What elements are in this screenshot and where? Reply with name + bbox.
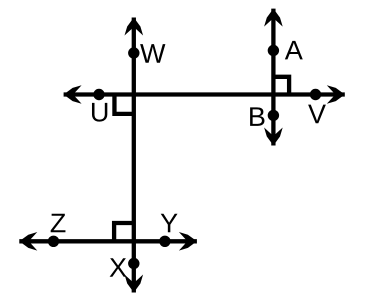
node W dot xyxy=(128,47,139,58)
label B xyxy=(250,107,264,126)
node Y dot xyxy=(159,236,170,247)
label Z xyxy=(51,214,66,233)
arrowhead WX bottom xyxy=(125,275,144,293)
arrowhead ZY left xyxy=(19,232,37,251)
arrowhead ZY right xyxy=(179,232,197,251)
node B dot xyxy=(268,110,279,121)
label W xyxy=(140,44,165,63)
arrowhead UV right xyxy=(327,85,345,104)
arrowhead AB top xyxy=(264,9,283,27)
wire: horizontal line UV xyxy=(64,92,345,96)
right-angle mark at AB intersection xyxy=(273,77,289,95)
node X dot xyxy=(128,258,139,269)
arrowhead UV left xyxy=(64,85,82,104)
wire: vertical line WX xyxy=(132,18,136,293)
wire: horizontal line ZY xyxy=(19,239,197,243)
right-angle mark at XY intersection xyxy=(114,223,134,241)
label U xyxy=(92,103,107,122)
node U dot xyxy=(93,89,104,100)
label Y xyxy=(161,214,178,233)
right-angle mark at U intersection xyxy=(114,95,133,114)
node Z dot xyxy=(48,236,59,247)
label V xyxy=(308,105,326,124)
arrowhead WX top xyxy=(125,18,144,36)
wire: vertical line AB xyxy=(271,9,275,146)
label A xyxy=(285,41,303,60)
node V dot xyxy=(310,89,321,100)
label X xyxy=(110,258,127,277)
node A dot xyxy=(268,45,279,56)
arrowhead AB bottom xyxy=(264,128,283,146)
